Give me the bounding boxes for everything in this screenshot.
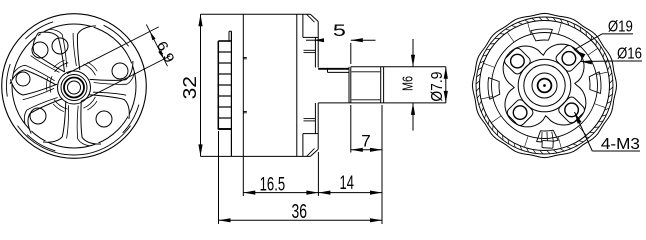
- svg-text:4-M3: 4-M3: [601, 136, 640, 153]
- right view: rim circle 2: [476, 17, 613, 154]
- thread crest top / extension to 7.9 dim: [351, 66, 446, 68]
- right view: knurl ticks on rim: [610, 80, 613, 83]
- left view: lightening holes in bell face: [112, 63, 128, 79]
- left view: hub concentric circles: [58, 71, 91, 104]
- dimension 36 line: [219, 219, 383, 221]
- dimension 6.9 arrowheads: [150, 32, 156, 41]
- svg-text:5: 5: [333, 21, 346, 40]
- bearing boss bottom tab: [304, 118, 316, 120]
- left view: five spokes of bell: [89, 61, 133, 119]
- right view: four windows between pads: [531, 29, 553, 41]
- dimension 5 extension line: [350, 43, 352, 64]
- dimension 32 line: [200, 14, 202, 156]
- svg-text:7: 7: [361, 132, 370, 151]
- dimension 16.5 line: [243, 192, 318, 194]
- dimension 6.9 extension line upper: [67, 27, 159, 74]
- bell rear bottom chamfer inner: [307, 148, 315, 156]
- bell front rim top notch: [228, 31, 230, 41]
- right view: base plate quatrefoil outline: [503, 44, 586, 127]
- bell top edge with extension: [201, 13, 311, 15]
- dimension dia7.9 line: [445, 67, 447, 103]
- extension line left for 36: [218, 131, 220, 224]
- dimension 5 line and arrows: [306, 39, 318, 41]
- left view: rim lower double arc: [18, 126, 131, 155]
- right view: sparse radial lines in band: [597, 72, 608, 74]
- label 4-M3 leader: [575, 112, 593, 151]
- right view: hub circles: [518, 59, 571, 112]
- dimension 7 line: [351, 149, 382, 151]
- dimension 6.9 line: [146, 24, 167, 66]
- dimension 7 extension lines: [350, 105, 352, 153]
- right view: wire lines inside bottom window: [541, 132, 544, 141]
- bell bottom edge with extension: [201, 155, 311, 157]
- bearing boss top tab: [304, 49, 316, 51]
- dimension 6.9 extension line lower: [81, 56, 170, 101]
- right view: rim inner circle: [480, 21, 610, 151]
- svg-text:14: 14: [340, 173, 355, 194]
- left view: spoke root blend arcs: [84, 64, 96, 75]
- bell rear top chamfer inner: [307, 14, 315, 22]
- svg-text:32: 32: [180, 76, 200, 99]
- right view: 4-M3 mounting pads and holes: [554, 44, 583, 73]
- thread start verticals: [348, 67, 350, 103]
- bell front rim (knurl ladder) left edge: [217, 41, 219, 130]
- svg-text:Ø7.9: Ø7.9: [429, 72, 446, 102]
- bell rear bottom chamfer: [310, 149, 318, 156]
- base flange verticals: [302, 14, 304, 37]
- svg-text:Ø16: Ø16: [617, 46, 642, 63]
- bell rear face line: [296, 14, 298, 156]
- bell front rim right edge: [230, 31, 232, 156]
- svg-text:36: 36: [291, 201, 307, 223]
- extension line from bell flange down: [242, 156, 244, 196]
- shaft clip groove vertical: [327, 69, 329, 73]
- bell rear top chamfer: [310, 14, 318, 21]
- shaft clip groove horizontal: [328, 71, 349, 73]
- thread root lines: [352, 71, 381, 73]
- svg-text:Ø19: Ø19: [608, 19, 633, 36]
- dimension 14 line: [318, 192, 382, 194]
- svg-text:M6: M6: [400, 76, 417, 91]
- shaft small section top (thick): [318, 68, 349, 70]
- right view: outer scalloped rim: [472, 13, 616, 157]
- svg-text:16.5: 16.5: [260, 174, 286, 195]
- bell flange line: [242, 14, 244, 156]
- label dia16 leader: [580, 60, 615, 63]
- extension line from bell rear down: [317, 152, 319, 196]
- label dia19 leader: [574, 34, 602, 50]
- right view: stator outer circle: [492, 33, 598, 139]
- base step horizontals: [303, 36, 318, 38]
- shaft end verticals: [380, 67, 382, 103]
- left view: bell rim inner circle: [12, 24, 136, 148]
- extension line right for 36: [381, 196, 383, 224]
- shaft bottom line / extension to 7.9 dim: [318, 102, 446, 104]
- flange step nubs: [243, 57, 247, 59]
- bell front rim rungs: [218, 40, 231, 42]
- bearing boss inner lines: [314, 37, 316, 67]
- thread M6 arrows: [412, 39, 414, 67]
- left view: bell front outer circle: [2, 14, 147, 159]
- left view: rim scallop arcs: [104, 25, 129, 46]
- base right edge: [317, 22, 319, 68]
- right view: wire notch at bottom of band: [542, 141, 553, 149]
